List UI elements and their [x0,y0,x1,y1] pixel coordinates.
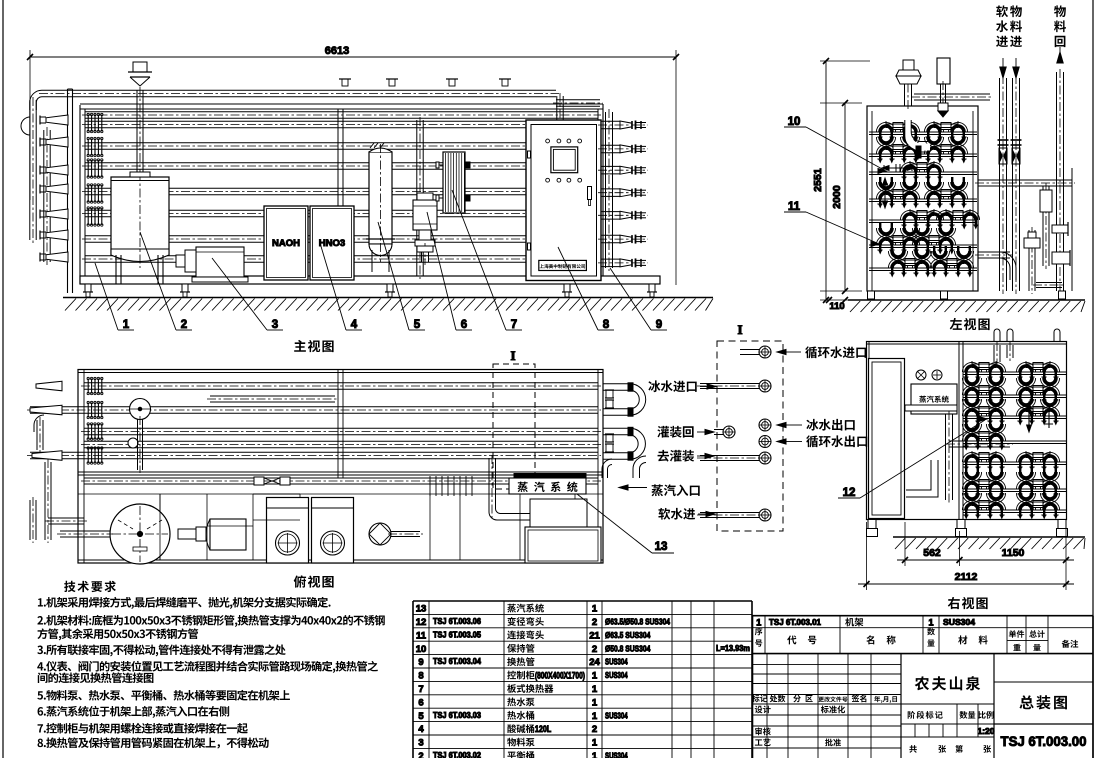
left view right side pipes [975,47,1075,294]
left view tube end caps [876,121,979,278]
svg-text:7: 7 [511,319,517,331]
svg-text:2: 2 [181,319,187,331]
sheet border left [2,0,4,758]
svg-text:HNO3: HNO3 [319,238,345,249]
left view frame [867,106,978,291]
callout 12 [838,417,987,499]
top view right box [525,499,601,563]
svg-text:562: 562 [923,547,941,559]
svg-text:21: 21 [589,630,600,641]
svg-text:3: 3 [418,738,423,749]
svg-text:5: 5 [418,711,424,722]
main view left pipe bundle [21,97,103,265]
svg-text:NAOH: NAOH [272,238,300,249]
top view frame [78,370,603,564]
svg-text:Ø63.5/Ø50.8 SUS304: Ø63.5/Ø50.8 SUS304 [605,617,670,627]
svg-text:1: 1 [928,618,933,628]
top view left pipes [30,377,151,543]
svg-text:13: 13 [416,604,427,615]
svg-text:SUS304: SUS304 [605,751,628,758]
left view callouts 10 11 [784,116,886,246]
svg-text:8: 8 [603,319,610,331]
top view steam inlet stub [602,456,646,478]
control cabinet item8 [526,120,601,281]
svg-text:TSJ 6T.003.03: TSJ 6T.003.03 [433,710,481,720]
left view top fittings [896,58,993,158]
svg-text:4: 4 [418,724,424,735]
hot water column item5 [366,143,395,272]
svg-text:2: 2 [418,751,423,758]
dimension 6613 main view [27,45,679,285]
svg-text:I: I [737,322,742,337]
svg-text:SUS304: SUS304 [605,670,628,680]
right view cabinet [869,359,905,519]
svg-text:Ø50.8 SUS304: Ø50.8 SUS304 [605,643,651,653]
svg-text:24: 24 [589,657,600,668]
section I dashed box [717,322,783,531]
svg-text:2000: 2000 [831,185,843,209]
main view callouts 1-9 [95,190,667,331]
right view feet [867,520,1068,537]
svg-text:6: 6 [461,319,467,331]
svg-text:SUS304: SUS304 [605,710,628,720]
right view label [948,597,988,609]
svg-text:4: 4 [351,319,358,331]
main view base beam [80,276,660,284]
top view acid alkali tanks [267,498,354,564]
top view balance tank [57,504,170,564]
right view divider [959,342,963,520]
svg-text:1: 1 [592,697,598,708]
svg-text:12: 12 [843,487,856,499]
svg-text:TSJ 6T.003.05: TSJ 6T.003.05 [433,629,481,639]
svg-text:TSJ 6T.003.01: TSJ 6T.003.01 [769,617,821,627]
svg-text:11: 11 [416,630,427,641]
top view right U-bends [603,383,646,460]
main view heat exchanger pipes [30,90,601,262]
svg-text:1: 1 [592,671,598,682]
svg-text:TSJ 6T.003.06: TSJ 6T.003.06 [433,616,481,626]
svg-text:1150: 1150 [1002,547,1025,559]
top view partitions [160,494,430,560]
svg-text:3: 3 [272,319,278,331]
svg-text:Ø63.5 SUS304: Ø63.5 SUS304 [605,630,651,640]
svg-text:7: 7 [418,684,423,695]
plate heat exchanger item7 [436,152,470,213]
balance tank item2 [111,62,169,284]
svg-text:L=13.93m: L=13.93m [716,643,750,653]
svg-text:11: 11 [788,201,801,213]
svg-text:1: 1 [123,319,130,331]
top view pipes [27,383,601,459]
hot water pump item6 [413,193,437,265]
main view feet [83,284,657,297]
left view label [950,318,990,330]
svg-text:6613: 6613 [325,45,349,57]
top view elbow pipe [489,455,530,520]
nozzle manifold pipe [606,109,613,271]
svg-text:2112: 2112 [955,571,978,583]
top view pump motor [178,519,246,550]
svg-text:13: 13 [655,541,668,553]
main view ground [63,298,713,311]
svg-text:TSJ 6T.003.04: TSJ 6T.003.04 [433,656,481,666]
svg-text:1: 1 [756,618,761,628]
right view steam box [905,370,957,414]
right view tube caps [962,361,1066,520]
acid alkali tanks NAOH HNO3 item4 [264,206,354,280]
left view feet [868,291,1066,299]
top view port labels [619,380,716,519]
svg-text:(800X400X1700): (800X400X1700) [535,671,585,681]
svg-text:1: 1 [592,684,598,695]
technical requirements text [37,581,385,749]
left view dimensions 2551 2000 110 [812,58,870,312]
material pump item3 [176,247,248,282]
svg-text:SUS304: SUS304 [943,617,975,627]
section box I dashed [493,348,535,489]
left view port labels [996,5,1066,47]
svg-text:110: 110 [829,301,844,312]
sheet border right [1092,0,1094,758]
top view label [294,575,334,587]
svg-text:12: 12 [416,617,427,628]
title block [752,616,1093,758]
svg-text:TSJ 6T.003.00: TSJ 6T.003.00 [1001,733,1087,749]
right view pipes [906,329,1060,503]
svg-text:120L: 120L [535,724,552,734]
svg-text:5: 5 [414,319,421,331]
svg-text:9: 9 [656,319,662,331]
svg-text:2551: 2551 [812,168,824,192]
svg-text:SUS304: SUS304 [605,657,628,667]
svg-text:6: 6 [418,697,423,708]
right view dimensions [858,522,1074,590]
main view label [294,340,333,352]
svg-text:8: 8 [418,671,423,682]
svg-text:I: I [510,348,515,363]
top view hot water pump [369,523,423,545]
svg-text:10: 10 [788,116,801,128]
section I labels [777,346,867,447]
svg-text:1: 1 [592,738,598,749]
svg-text:1:20: 1:20 [977,726,994,736]
bill of materials table [413,601,752,758]
callout 13 [577,494,674,553]
svg-text:2: 2 [592,617,597,628]
svg-text:1: 1 [592,711,598,722]
top view inline valve [254,477,290,485]
right view frame [867,342,1067,520]
svg-text:10: 10 [416,644,427,655]
outlet nozzles item9 [598,121,648,268]
main view frame [68,89,604,293]
left view ground [848,300,1085,312]
svg-text:1: 1 [592,604,598,615]
section I ports [697,346,771,521]
right view ground [893,537,1085,549]
svg-text:9: 9 [418,657,423,668]
steam system box top view [430,474,586,497]
svg-text:1: 1 [592,751,598,758]
svg-text:2: 2 [592,724,597,735]
main view top pipework [339,79,603,279]
svg-text:2: 2 [592,644,597,655]
svg-text:TSJ 6T.003.02: TSJ 6T.003.02 [433,750,481,758]
